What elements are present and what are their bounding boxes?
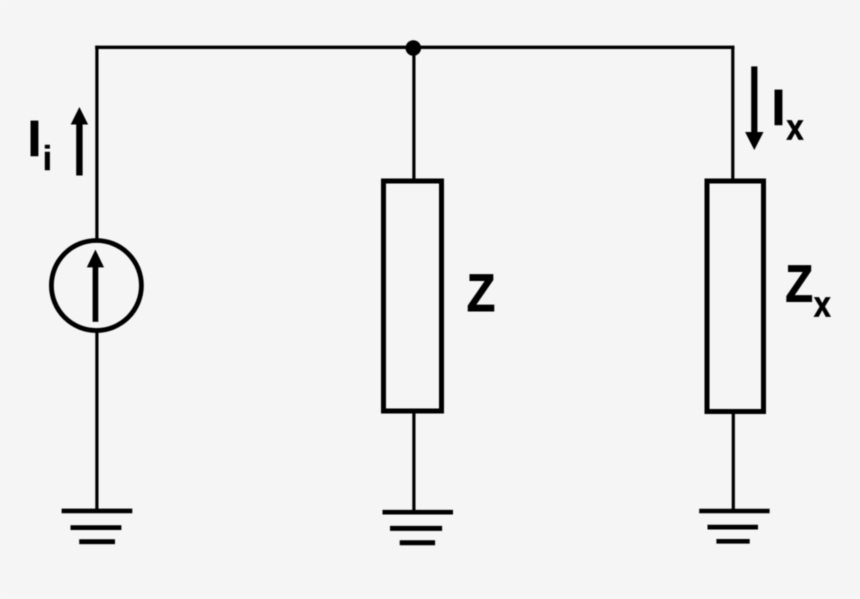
svg-text:I: I [771, 79, 785, 136]
svg-text:I: I [27, 110, 41, 167]
svg-text:Z: Z [785, 256, 813, 314]
svg-text:x: x [814, 285, 831, 325]
svg-text:x: x [786, 108, 803, 148]
svg-text:i: i [43, 140, 52, 178]
svg-text:Z: Z [467, 263, 495, 322]
